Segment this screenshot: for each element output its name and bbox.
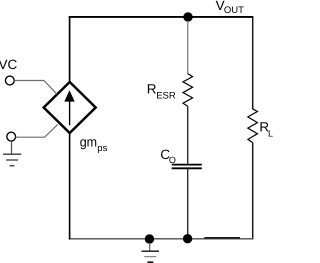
ground: left bar 1 xyxy=(3,153,21,155)
node: VOUT junction dot xyxy=(183,12,192,21)
svg-text:OUT: OUT xyxy=(224,5,244,16)
node: bottom junction dot (CO branch) xyxy=(183,234,192,243)
wire: left vertical lower (diamond bottom to bottom rail) xyxy=(69,132,71,240)
node: bottom-left junction dot (ground tap) xyxy=(145,234,154,243)
capacitor CO: top plate xyxy=(172,164,202,166)
svg-text:O: O xyxy=(169,155,176,165)
dependent source gmps: arrow head xyxy=(64,90,74,101)
capacitor CO: bottom plate xyxy=(172,167,202,169)
dependent source gmps: arrow shaft xyxy=(69,100,71,125)
wire: right vertical upper (VOUT to RL) xyxy=(252,16,254,109)
resistor RESR xyxy=(183,74,193,107)
svg-text:L: L xyxy=(268,128,273,138)
wire: CO to bottom rail xyxy=(187,169,189,239)
ground: bottom bar 3 xyxy=(147,261,153,263)
terminal: VC upper circle xyxy=(5,76,14,85)
ground: left bar 2 xyxy=(6,159,18,161)
wire: bottom rail xyxy=(69,238,254,240)
ground: bottom stub xyxy=(149,243,151,251)
ground: bottom bar 1 xyxy=(142,250,160,252)
wire: lower lead to diamond xyxy=(16,124,58,137)
ground: left bar 3 xyxy=(10,165,15,167)
ground: left terminal stub xyxy=(11,141,13,154)
svg-text:VC: VC xyxy=(0,57,18,72)
wire: VC upper lead to diamond xyxy=(14,81,57,95)
svg-text:ps: ps xyxy=(97,143,107,154)
dependent source gmps: diamond body xyxy=(44,82,96,133)
wire: RESR branch upper lead (gray) xyxy=(187,21,189,74)
wire: RESR to CO xyxy=(187,106,189,163)
wire: bottom rail dark overlay segment xyxy=(204,237,240,239)
terminal: lower circle xyxy=(7,132,16,141)
resistor RL xyxy=(248,109,258,143)
wire: left vertical (top corner to diamond top) xyxy=(69,16,71,83)
ground: bottom bar 2 xyxy=(144,256,156,258)
svg-text:R: R xyxy=(147,82,157,97)
svg-text:gm: gm xyxy=(80,134,97,149)
wire: top rail xyxy=(69,16,254,18)
wire: right vertical lower (RL to bottom rail) xyxy=(252,143,254,240)
svg-text:ESR: ESR xyxy=(156,91,176,102)
